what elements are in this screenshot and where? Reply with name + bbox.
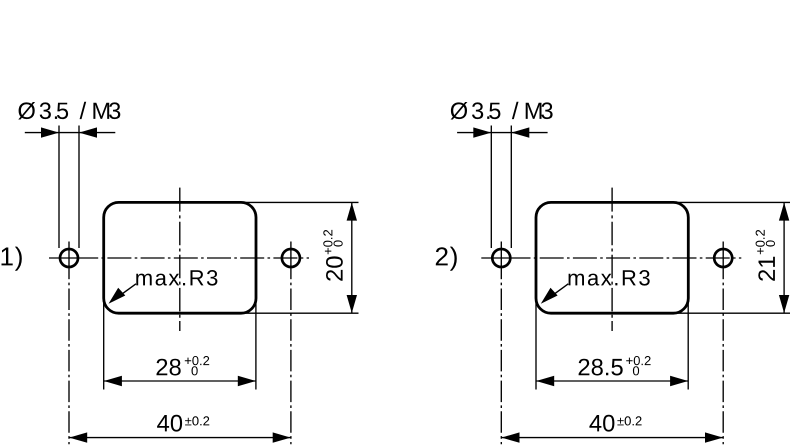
panel cutout 1: rounded rectangle [104,202,256,313]
hole spacing text "40 ±0.2" 1 [157,415,182,432]
vertical centerline of right hole 1 [290,242,292,280]
height dimension extension lines 2 [673,201,790,203]
hole spacing dimension line "40" with arrows 2 [501,437,723,439]
hole spacing text "40 ±0.2" 2 [589,415,614,432]
mounting hole left (Ø3.5) of drawing 1 [60,249,78,267]
hole spacing dimension line "40" with arrows 1 [69,437,291,439]
hole diameter extension lines (Ø3.5) 2 [490,126,492,249]
horizontal centerline through holes and cutout 1 [49,257,98,259]
hole diameter dimension line with arrows 2 [457,132,547,134]
vertical centerline of left hole 2 [500,242,502,280]
vertical centerline of right hole 2 [722,242,724,280]
cutout width dimension line with arrows 2 [536,380,688,382]
label "Ø 3.5 / M3" 2 [451,102,468,120]
height dimension line with arrows 2 [783,202,785,313]
corner radius leader arrow 1 [113,284,137,301]
label "Ø 3.5 / M3" 1 [18,102,35,120]
rotated height dimension text "20 +0.2/0" 1 [323,230,343,281]
mounting hole left (Ø3.5) of drawing 2 [492,249,510,267]
cutout width extension lines 2 [535,300,537,390]
corner radius note "max.R3" 2 [569,270,650,286]
rotated height dimension text "21 +0.2/0" 2 [756,230,775,281]
horizontal centerline through holes and cutout 2 [481,257,530,259]
panel cutout 2: rounded rectangle [536,202,688,313]
hole diameter extension lines (Ø3.5) 1 [58,126,60,249]
vertical centerline of cutout 1 [179,188,181,212]
vertical centerline of cutout 2 [611,188,613,212]
height dimension extension lines 1 [241,201,359,203]
cutout width dimension line with arrows 1 [104,380,256,382]
item label "2)" [436,247,457,271]
vertical centerline of left hole 1 [68,242,70,280]
width dimension text "28.5 +0.2/0" 2 [579,359,623,376]
hole diameter dimension line with arrows 1 [25,132,116,134]
width dimension text "28 +0.2/0" 1 [157,359,181,376]
mounting hole right (Ø3.5) of drawing 2 [714,249,732,267]
corner radius leader arrow 2 [545,284,569,301]
cutout width extension lines 1 [103,300,105,390]
item label "1)" [2,247,22,271]
height dimension line with arrows 1 [351,202,353,313]
corner radius note "max.R3" 1 [136,270,217,286]
mounting hole right (Ø3.5) of drawing 1 [282,249,300,267]
